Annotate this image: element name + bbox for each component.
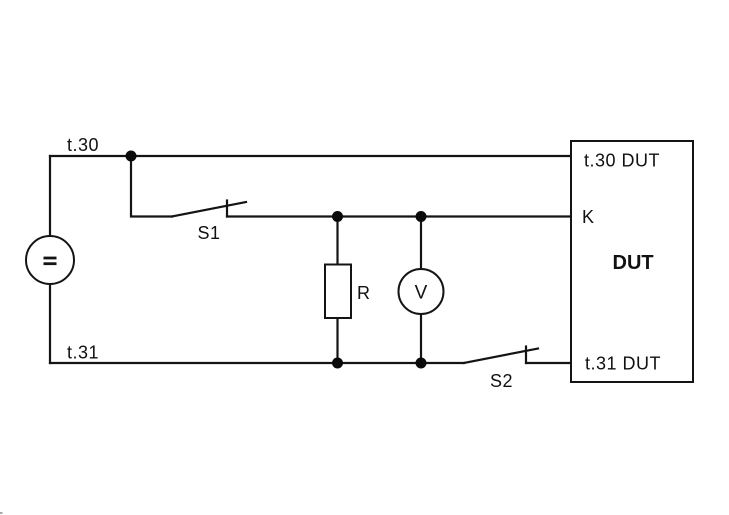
wire: resistor branch vertical: [336, 217, 338, 364]
svg-text:t.31: t.31: [67, 343, 99, 363]
stray mark bottom-left corner: [0, 512, 3, 514]
switch S2 (open blade with contact tick): [464, 347, 538, 364]
switch S1 (open blade with contact tick): [172, 201, 246, 217]
node C: K wire / V top: [416, 211, 427, 222]
wire: node A down to switch S1 pole: [131, 156, 172, 217]
node E: t.31 / V bottom: [416, 358, 427, 369]
wire: bottom net t.31 from source to S2 pole: [50, 362, 464, 364]
svg-text:t.31 DUT: t.31 DUT: [585, 354, 661, 374]
node D: t.31 / R bottom: [332, 358, 343, 369]
wire: left vertical through source G1: [49, 156, 51, 363]
DUT box U1: [571, 141, 693, 382]
resistor R: [325, 265, 351, 319]
svg-text:K: K: [582, 207, 595, 227]
svg-text:S1: S1: [198, 223, 221, 243]
svg-text:t.30 DUT: t.30 DUT: [584, 151, 660, 171]
dc source G1: [26, 236, 74, 284]
node A: junction t.30 / S1: [126, 151, 137, 162]
wire: S2 to DUT pin t.31: [526, 362, 570, 364]
svg-text:V: V: [415, 283, 428, 304]
svg-text:S2: S2: [490, 371, 513, 391]
wire: top net t.30 from source to DUT: [50, 155, 570, 157]
voltmeter V: [399, 269, 444, 314]
node B: K wire / R top: [332, 211, 343, 222]
svg-text:DUT: DUT: [613, 252, 654, 274]
svg-text:t.30: t.30: [67, 135, 99, 155]
wire: voltmeter branch vertical: [420, 217, 422, 364]
svg-text:R: R: [357, 283, 371, 303]
wire: S1 to DUT pin K: [227, 215, 570, 217]
